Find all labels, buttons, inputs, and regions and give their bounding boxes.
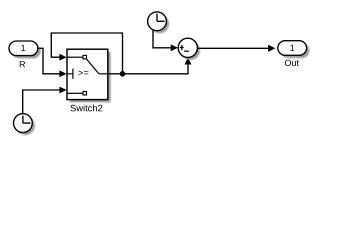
outport Out shadow — [281, 44, 310, 59]
inport R — [9, 41, 38, 56]
sum block — [178, 38, 197, 57]
sum block shadow — [181, 41, 200, 60]
icon line input3 — [67, 92, 83, 94]
wire R to switch input 2 — [38, 48, 66, 77]
wire sum to outport — [197, 45, 275, 52]
clock block (bottom-left) — [14, 114, 33, 133]
label Out — [285, 60, 299, 66]
icon line input1 — [67, 56, 83, 58]
clock block (bottom-left) shadow — [16, 116, 35, 135]
label R — [20, 61, 25, 67]
wire top clock to sum left input — [153, 30, 178, 52]
junction dot — [120, 71, 126, 77]
icon square port1 — [83, 55, 87, 59]
clock block (top) shadow — [150, 15, 169, 34]
icon diagonal — [86, 59, 99, 74]
icon text >= — [78, 71, 88, 76]
switch block Switch2 shadow — [70, 52, 111, 102]
label Switch2 — [71, 105, 103, 112]
wire bottom clock to switch input 3 — [23, 87, 67, 114]
feedback wire from output junction to switch input 1 — [51, 33, 122, 74]
inport R shadow — [12, 44, 41, 59]
icon square port3 — [83, 92, 87, 96]
minus sign — [184, 50, 189, 52]
icon line input2 + tick — [67, 69, 73, 79]
plus sign — [180, 45, 184, 50]
wire switch output to sum bottom input — [108, 57, 192, 74]
icon output line — [99, 73, 108, 75]
outport Out — [278, 41, 307, 56]
switch block Switch2 — [67, 49, 108, 99]
clock block (top) — [148, 12, 167, 31]
